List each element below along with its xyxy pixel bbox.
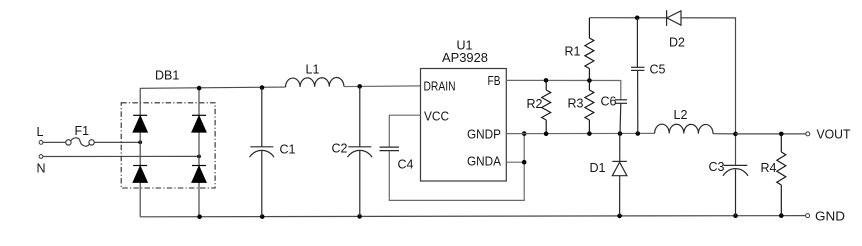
capacitor C5 [631, 18, 644, 134]
node C3 bottom [733, 213, 738, 218]
node C2 top [357, 84, 362, 89]
svg-text:C4: C4 [398, 158, 414, 172]
diode D2 [667, 10, 681, 26]
svg-text:C1: C1 [280, 143, 296, 157]
node C2 bottom [357, 214, 362, 219]
node R4 top [779, 132, 784, 137]
capacitor C3 [723, 165, 748, 215]
node bridge-right top [197, 86, 202, 91]
resistor R3 [585, 81, 594, 134]
wire main top rail bridge to L1 [140, 87, 285, 88]
node R3 bottom [587, 131, 592, 136]
wire bridge left vertical [139, 88, 141, 217]
svg-text:GNDA: GNDA [467, 155, 502, 169]
inductor L2 [655, 124, 713, 134]
wire VCC pin [389, 115, 420, 147]
wire L to fuse [43, 141, 66, 143]
wire fuse to bridge [94, 141, 140, 143]
wire C4 bottom return loop [389, 134, 524, 201]
svg-text:GND: GND [815, 210, 845, 224]
svg-text:R3: R3 [568, 97, 584, 111]
wire L1 to U1 DRAIN [344, 85, 421, 88]
wire L2 to VOUT node [713, 133, 736, 135]
svg-text:D2: D2 [669, 36, 685, 50]
wire bridge right vertical [198, 88, 200, 217]
node R2 top [544, 78, 549, 83]
resistor R4 [777, 134, 786, 216]
svg-text:D1: D1 [590, 161, 606, 175]
node D1 bottom [617, 214, 622, 219]
svg-text:R1: R1 [565, 45, 581, 59]
capacitor C4 [380, 147, 400, 151]
terminal N [39, 155, 43, 159]
node L-bridge junction [138, 140, 142, 144]
svg-text:DRAIN: DRAIN [424, 80, 456, 94]
wire GND bottom rail [140, 216, 805, 217]
diode DB1 bottom-left [133, 166, 147, 183]
diode DB1 bottom-right [192, 166, 206, 183]
capacitor C2 [348, 86, 373, 216]
wire D2 down through C3 to GND [735, 134, 737, 166]
svg-text:GNDP: GNDP [467, 128, 501, 142]
resistor R2 [542, 80, 551, 133]
svg-text:F1: F1 [75, 124, 90, 138]
wire top rail R1 to D2 corner [589, 18, 735, 134]
fuse F1 [66, 138, 95, 146]
node VOUT junction [733, 132, 738, 137]
svg-text:AP3928: AP3928 [442, 51, 488, 65]
svg-text:L1: L1 [306, 63, 320, 77]
svg-text:C2: C2 [332, 141, 348, 155]
svg-text:VCC: VCC [424, 110, 449, 124]
svg-text:C6: C6 [601, 95, 617, 109]
wire VOUT row [736, 133, 806, 135]
op-amp U1 box [421, 69, 507, 182]
svg-text:R4: R4 [761, 161, 777, 175]
diode D1 [612, 134, 627, 216]
svg-text:R2: R2 [527, 97, 543, 111]
svg-text:VOUT: VOUT [817, 128, 851, 142]
node R4 bottom [779, 213, 784, 218]
wire N to bridge [43, 155, 199, 157]
terminal VOUT [806, 132, 810, 136]
diode DB1 top-left [133, 115, 147, 132]
terminal GND [806, 214, 810, 218]
svg-text:FB: FB [488, 74, 501, 88]
node C1 top [260, 85, 265, 90]
capacitor C1 [250, 87, 275, 216]
inductor L1 [285, 77, 343, 87]
wire GNDA pin [506, 161, 524, 163]
node C5 top [635, 15, 640, 20]
node GNDA junction [522, 160, 527, 165]
svg-text:DB1: DB1 [155, 69, 179, 83]
bridge DB1 dashed box [121, 103, 215, 188]
node bridge-right bottom [197, 214, 202, 219]
terminal L [39, 141, 43, 145]
diode DB1 top-right [192, 115, 206, 132]
resistor R1 [585, 18, 594, 81]
node C5 bottom [636, 131, 641, 136]
node C1 bottom [260, 214, 265, 219]
node R3 top / R1 bottom [587, 78, 592, 83]
node C6-D1 junction [618, 131, 623, 136]
svg-text:L2: L2 [674, 108, 688, 122]
node N-bridge junction [197, 155, 201, 159]
wire FB rail [506, 80, 621, 99]
capacitor C6 [615, 100, 627, 134]
node GNDP loop junction [522, 131, 527, 136]
svg-text:C5: C5 [650, 63, 666, 77]
svg-text:C3: C3 [709, 160, 725, 174]
wire GNDP rail to L2 [506, 132, 654, 134]
svg-text:L: L [37, 125, 44, 139]
node R2 bottom [544, 131, 549, 136]
svg-text:N: N [37, 162, 46, 176]
